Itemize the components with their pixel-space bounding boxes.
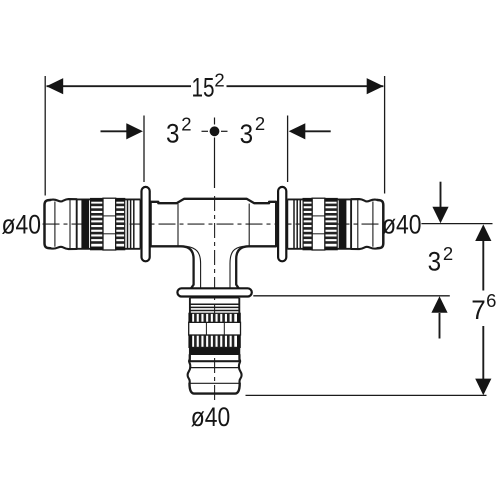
extension line left xyxy=(44,76,46,196)
svg-text:3: 3 xyxy=(166,119,180,149)
right press end: knurled ring 1 xyxy=(325,199,337,250)
left press end: sleeve surface xyxy=(77,198,141,200)
bottom press end: knurled ring 2 xyxy=(189,313,240,322)
right press end: grooved rings near flange xyxy=(299,200,301,249)
bore line right xyxy=(248,204,250,246)
right press end: knurled ring 2 xyxy=(303,199,312,250)
bottom press end: grooved rings near flange xyxy=(190,310,239,312)
left press end: flange xyxy=(142,187,150,261)
bottom press end: pipe with outward bulge and end bracket xyxy=(188,355,191,384)
branch bore right xyxy=(229,264,231,289)
tee body right side xyxy=(275,202,277,247)
bottom press end: flange xyxy=(177,288,251,296)
svg-text:6: 6 xyxy=(486,290,496,311)
right press end: pipe end bracket xyxy=(378,200,384,248)
arrow down onto centerline xyxy=(440,182,442,209)
svg-text:3: 3 xyxy=(240,119,254,149)
right press end: pipe profile lines xyxy=(372,202,374,247)
center mark dot xyxy=(210,126,220,136)
right press end: smooth band xyxy=(312,198,325,250)
centerline extension right xyxy=(421,223,492,225)
extension line right xyxy=(384,76,386,194)
inner fillet right xyxy=(230,246,243,263)
inner fillet left xyxy=(186,246,200,263)
tee body bottom-left and branch left edge xyxy=(151,246,194,288)
svg-text:2: 2 xyxy=(214,70,224,91)
horizontal centerline xyxy=(43,223,380,225)
dimension line 152 xyxy=(47,85,192,87)
svg-text:ø40: ø40 xyxy=(2,209,42,239)
svg-text:ø40: ø40 xyxy=(382,209,422,239)
right press end: o-ring black band xyxy=(339,199,347,248)
right press end: sleeve end edge xyxy=(350,199,352,249)
branch bore left xyxy=(200,264,202,289)
svg-text:ø40: ø40 xyxy=(191,402,231,432)
tee body outline top xyxy=(151,199,276,203)
arrow 32 right xyxy=(305,130,331,132)
bottom press end: sleeve end edge xyxy=(190,360,240,362)
svg-text:2: 2 xyxy=(181,113,191,134)
arrow up onto flange line xyxy=(439,313,441,339)
svg-text:2: 2 xyxy=(443,243,453,264)
tee body bottom-right and branch right edge xyxy=(236,246,276,288)
left press end: grooved rings near flange xyxy=(127,200,129,249)
arrowhead 152 right xyxy=(367,78,384,94)
left press end: sleeve end edge xyxy=(76,199,78,249)
left press end: smooth band xyxy=(103,198,116,250)
right press end: pipe wavy profile xyxy=(351,199,377,201)
svg-text:15: 15 xyxy=(192,72,215,102)
bottom press end: pipe profile lines xyxy=(190,360,238,362)
right press end: sleeve surface xyxy=(288,198,352,200)
left press end: o-ring black band xyxy=(81,199,89,248)
svg-text:2: 2 xyxy=(255,113,265,134)
bottom press end: o-ring black band xyxy=(190,347,239,355)
left press end: pipe end bracket xyxy=(45,200,51,248)
left press end: pipe wavy profile xyxy=(50,199,76,201)
svg-text:3: 3 xyxy=(428,247,442,277)
tick left 32 xyxy=(143,116,145,183)
bottom press end: knurled ring 1 xyxy=(189,335,240,347)
arrowhead 152 left xyxy=(46,78,63,94)
left press end: knurled ring 2 xyxy=(116,199,125,250)
left press end: knurled ring 1 xyxy=(91,199,103,250)
tee body left side xyxy=(150,202,152,247)
svg-text:7: 7 xyxy=(471,295,486,325)
right press end: flange xyxy=(278,187,286,261)
tick right 32 xyxy=(287,116,289,183)
bottom press end: smooth band xyxy=(189,322,241,335)
bottom press end: sleeve surface xyxy=(189,298,191,362)
arrow 32 left xyxy=(101,130,128,132)
bore line left xyxy=(177,204,179,246)
dimension 76 vertical xyxy=(482,238,484,291)
vertical branch centerline xyxy=(214,196,216,401)
bottom reference line xyxy=(246,394,487,396)
left press end: pipe profile lines xyxy=(54,202,56,247)
flange reference line xyxy=(253,295,449,297)
